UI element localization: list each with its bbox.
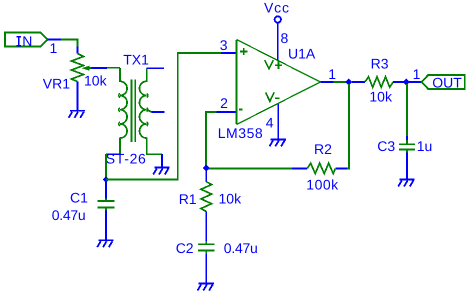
svg-text:100k: 100k: [306, 177, 339, 193]
node J1 output: [345, 79, 352, 86]
svg-text:1: 1: [413, 66, 421, 82]
svg-text:1u: 1u: [417, 138, 433, 154]
svg-text:Vcc: Vcc: [264, 0, 290, 16]
svg-text:R3: R3: [371, 56, 389, 72]
wire J2 down to C3: [406, 84, 408, 136]
svg-text:0.47u: 0.47u: [224, 240, 258, 256]
wire wiper to TX1: [107, 67, 120, 69]
pin stub C1 bottom: [105, 211, 107, 241]
wire R2 to node R1: [206, 167, 292, 169]
ground below C1: [97, 240, 113, 247]
pin stub C3 top: [406, 136, 408, 140]
ground below TX1 secondary: [153, 168, 169, 175]
pin stub TX1 center tap: [152, 111, 165, 113]
resistor R2: [307, 163, 335, 173]
svg-text:8: 8: [281, 30, 289, 46]
svg-text:LM358: LM358: [218, 125, 264, 141]
port OUT: [422, 75, 465, 91]
svg-text:10k: 10k: [369, 89, 393, 105]
capacitor C3: [399, 140, 415, 153]
pin stub C2 bottom: [205, 254, 207, 284]
svg-text:C3: C3: [377, 138, 395, 154]
wire output to node J1: [334, 81, 346, 83]
svg-text:ST-26: ST-26: [106, 151, 147, 167]
wire feedback J1 down to R2: [347, 84, 349, 168]
svg-text:C1: C1: [70, 190, 88, 206]
ground below C2: [198, 284, 214, 291]
op-amp U1A: [237, 40, 321, 125]
svg-text:10k: 10k: [219, 191, 243, 207]
pin stub op-amp output pin 1: [321, 81, 334, 83]
pin stub from IN port: [48, 39, 61, 41]
wire pin2 down to node R1: [206, 112, 217, 168]
power Vcc: [264, 0, 290, 23]
ground below VR1: [69, 111, 85, 118]
pin stub to OUT port: [409, 81, 422, 83]
pin stub R1 bottom to C2: [205, 212, 207, 241]
pin stub C3 bottom: [406, 153, 408, 180]
resistor R1: [201, 182, 212, 212]
pin stub op-amp pin 2: [217, 111, 237, 113]
svg-text:3: 3: [220, 37, 228, 53]
node junction R1 top: [203, 165, 210, 172]
node junction C1: [103, 176, 110, 183]
pin stub op-amp pin 4: [277, 104, 279, 139]
ground below C3: [398, 180, 414, 187]
svg-text:VR1: VR1: [43, 75, 70, 91]
svg-text:4: 4: [266, 115, 274, 131]
svg-text:1: 1: [50, 40, 58, 56]
wire node to op-amp pin3 riser: [106, 53, 221, 179]
pin stub op-amp pin 8 from Vcc: [277, 23, 279, 60]
capacitor C2: [198, 241, 215, 254]
pin stub VR1 wiper: [92, 67, 108, 69]
potentiometer VR1: [71, 54, 91, 82]
pin stub TX1 secondary top: [147, 67, 164, 69]
port IN: [5, 33, 48, 49]
capacitor C1: [98, 198, 115, 210]
svg-text:1: 1: [328, 66, 336, 82]
svg-text:OUT: OUT: [432, 75, 462, 91]
pin stub VR1 top: [76, 47, 78, 54]
pin stub R3 left: [352, 81, 365, 83]
pin stub VR1 bottom to ground: [76, 82, 78, 111]
pin stub R2 left: [292, 167, 307, 169]
pin stub R3 right: [393, 81, 403, 83]
ground below op-amp pin 4: [270, 139, 286, 146]
pin stub C1 top: [105, 182, 107, 198]
svg-text:R2: R2: [314, 141, 332, 157]
wire TX1 primary bottom down to node: [105, 154, 107, 179]
svg-text:0.47u: 0.47u: [52, 207, 86, 223]
svg-text:C2: C2: [176, 240, 194, 256]
pin stub R2 right: [335, 167, 347, 169]
svg-text:U1A: U1A: [288, 46, 316, 62]
svg-text:TX1: TX1: [123, 51, 149, 67]
transformer TX1: [119, 68, 162, 154]
svg-text:10k: 10k: [84, 72, 108, 88]
pin stub TX1 secondary bottom: [161, 154, 163, 167]
svg-text:R1: R1: [179, 191, 197, 207]
svg-text:N: N: [22, 33, 32, 49]
svg-text:2: 2: [220, 95, 228, 111]
pin stub R1 top: [205, 171, 207, 182]
pin stub op-amp pin 3: [221, 52, 236, 54]
wire IN to VR1: [61, 40, 77, 47]
resistor R3: [365, 77, 393, 87]
pin stub TX1 primary bottom: [106, 153, 120, 155]
node J2 near OUT: [403, 79, 410, 86]
